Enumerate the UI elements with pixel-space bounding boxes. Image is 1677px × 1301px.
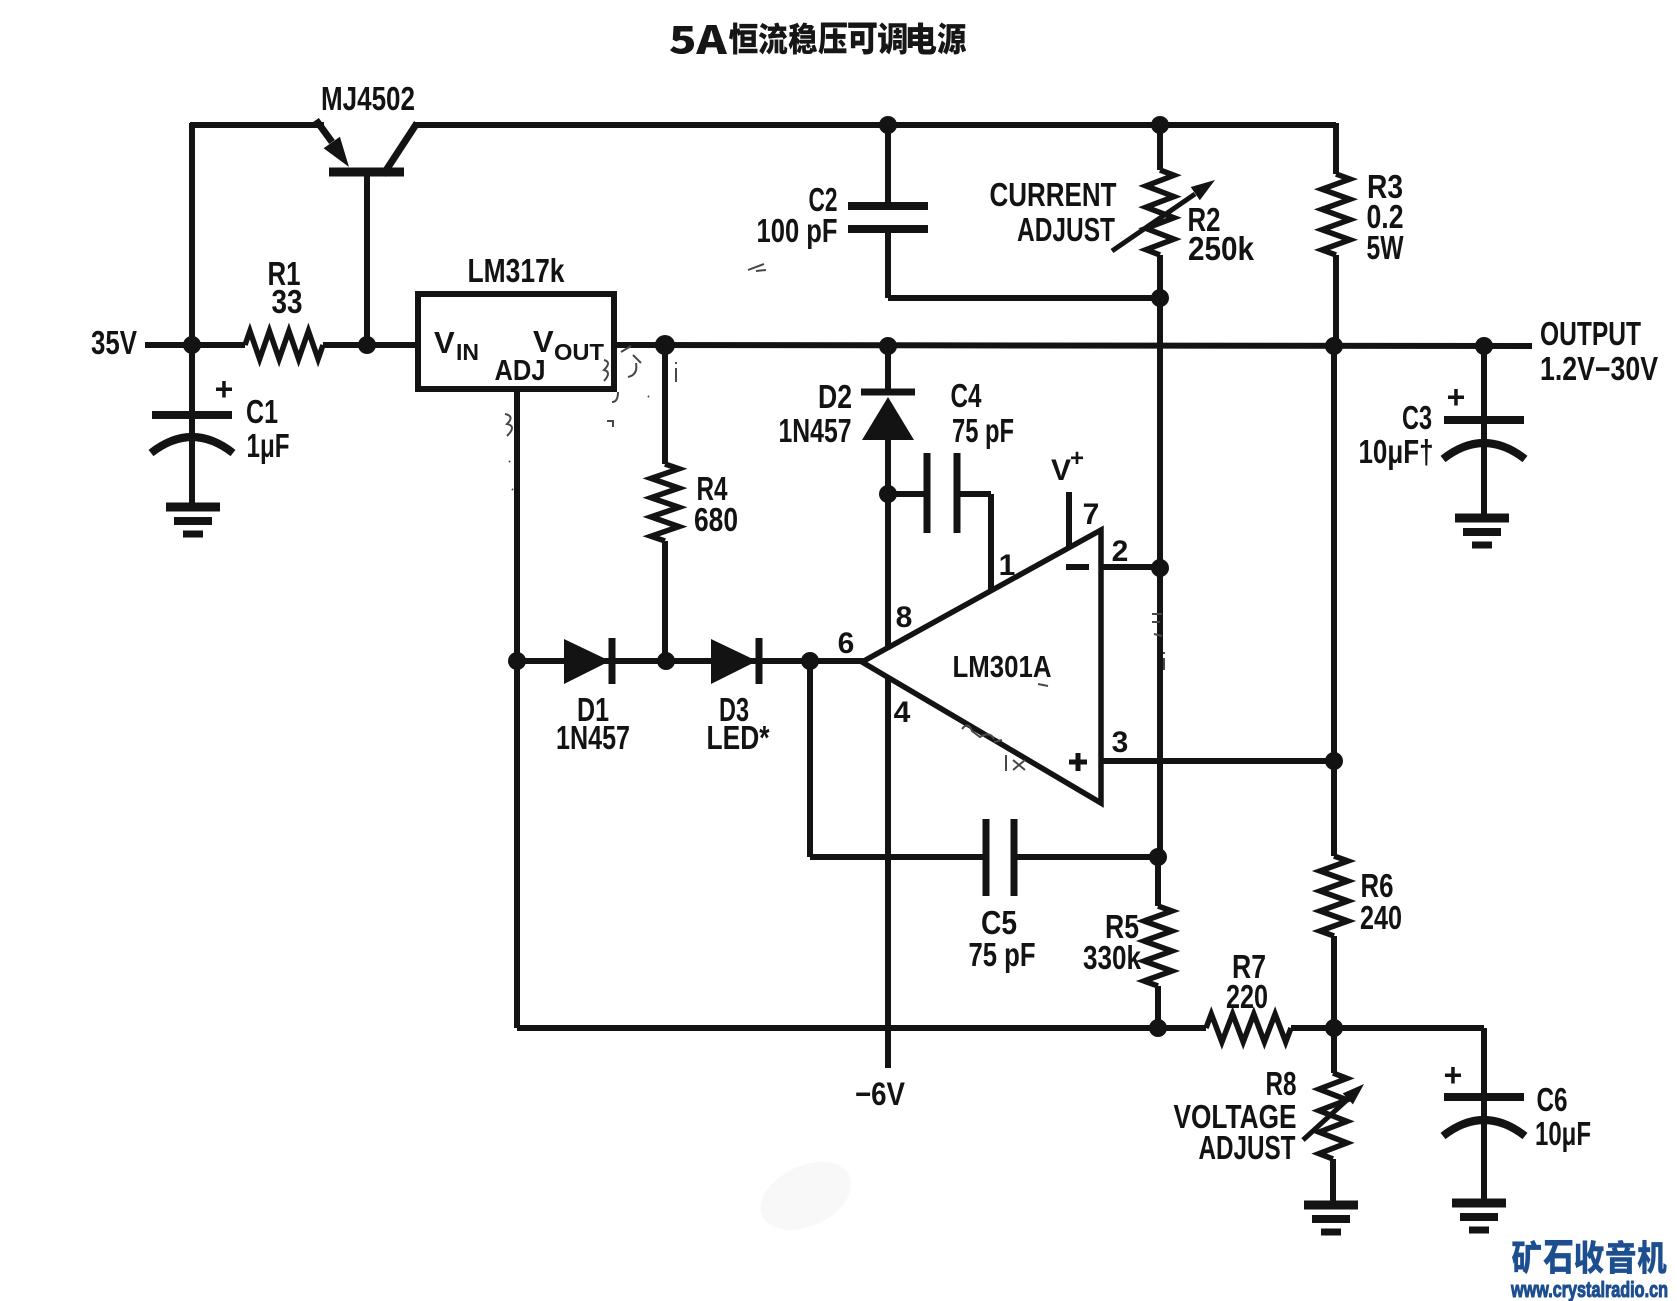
junction output-D2 [879, 337, 897, 355]
svg-text:1N457: 1N457 [556, 719, 630, 756]
capacitor C1 1uF [151, 345, 290, 507]
junction C2 top [879, 116, 897, 134]
potentiometer R8 VOLTAGE ADJUST [1174, 1028, 1365, 1201]
svg-text:C1: C1 [246, 393, 278, 430]
svg-text:75 pF: 75 pF [969, 936, 1036, 973]
svg-text:8: 8 [896, 601, 913, 634]
resistor R3 0.2 5W [1322, 123, 1404, 346]
junction R4-diode chain [657, 652, 675, 670]
capacitor C4 75pF [888, 377, 1014, 533]
svg-text:250k: 250k [1188, 230, 1255, 267]
svg-text:+: + [1070, 445, 1084, 472]
diode D2 1N457 [779, 346, 916, 495]
ground C1 [166, 503, 220, 512]
ground C6 [1452, 1199, 1506, 1208]
capacitor C5 75pF [969, 819, 1161, 973]
transistor Q1 MJ4502 [316, 120, 417, 345]
svg-text:1μF: 1μF [247, 427, 290, 464]
junction pin3-R6 line [1325, 752, 1343, 770]
resistor R1 33 [192, 255, 420, 359]
capacitor C2 100pF [757, 125, 929, 298]
capacitor C3 10uF [1359, 346, 1526, 518]
ground C3 [1455, 514, 1509, 523]
svg-text:LM317k: LM317k [468, 252, 566, 289]
svg-text:7: 7 [1083, 498, 1100, 531]
svg-text:R8: R8 [1266, 1065, 1297, 1102]
scan artifacts [505, 264, 1164, 771]
svg-text:LM301A: LM301A [953, 649, 1052, 684]
svg-text:OUTPUT: OUTPUT [1540, 315, 1641, 352]
svg-text:LED*: LED* [707, 719, 770, 756]
svg-text:OUT: OUT [554, 339, 604, 365]
pin 7 V+ [1066, 492, 1072, 549]
wire C2 to R2 wiper [888, 295, 1160, 301]
svg-text:MJ4502: MJ4502 [321, 80, 415, 117]
svg-text:+: + [215, 371, 234, 407]
pin 2 inverting input [1101, 564, 1160, 570]
svg-text:V: V [434, 325, 455, 360]
ground R8 [1304, 1201, 1358, 1210]
svg-text:240: 240 [1360, 899, 1402, 936]
diode D1 1N457 [556, 638, 630, 756]
junction R2 top [1151, 116, 1169, 134]
resistor R7 220 [1206, 948, 1484, 1042]
svg-text:www.crystalradio.cn: www.crystalradio.cn [1510, 1277, 1668, 1301]
svg-text:−6V: −6V [855, 1076, 906, 1112]
wire pin1 stub [988, 494, 994, 592]
svg-text:35V: 35V [91, 324, 137, 361]
potentiometer R2 250k CURRENT ADJUST [990, 125, 1255, 857]
svg-text:5W: 5W [1367, 229, 1405, 266]
svg-text:4: 4 [894, 696, 911, 729]
svg-text:ADJUST: ADJUST [1199, 1129, 1296, 1166]
svg-text:1: 1 [999, 549, 1016, 582]
pin 4 V- [885, 679, 891, 1068]
junction R6-R8-bottom rail [1325, 1019, 1343, 1037]
junction C5-R5-pin2 line [1149, 848, 1167, 866]
wire emitter feed vertical [189, 123, 195, 347]
junction R1-base-Vin [358, 336, 376, 354]
svg-text:10μF†: 10μF† [1359, 433, 1434, 470]
svg-text:6: 6 [838, 627, 855, 660]
faint smudge [750, 1149, 862, 1244]
svg-text:C3: C3 [1402, 399, 1432, 436]
svg-text:10μF: 10μF [1535, 1115, 1591, 1152]
svg-text:CURRENT: CURRENT [990, 176, 1117, 213]
junction R2 bottom [1151, 289, 1169, 307]
svg-text:+: + [1444, 1057, 1463, 1093]
wire feedback bottom rail [517, 1025, 1206, 1031]
junction pin6 node [801, 652, 819, 670]
svg-text:D2: D2 [818, 378, 852, 415]
wire pin8 stub [885, 494, 891, 646]
svg-text:100 pF: 100 pF [757, 212, 838, 249]
svg-text:2: 2 [1112, 535, 1129, 568]
wire 35V lead [145, 342, 192, 348]
resistor R4 680 [651, 345, 738, 661]
op-amp U1 LM301A [862, 530, 1101, 803]
svg-text:ADJUST: ADJUST [1017, 211, 1115, 248]
regulator U2 LM317k [418, 252, 614, 389]
svg-text:3: 3 [1112, 726, 1129, 759]
svg-text:V: V [533, 324, 554, 359]
svg-text:220: 220 [1226, 978, 1268, 1015]
resistor R5 330k [1083, 857, 1172, 1028]
junction output-C3 [1475, 337, 1493, 355]
svg-text:ADJ: ADJ [495, 355, 546, 387]
svg-text:680: 680 [694, 501, 738, 538]
wire top rail right segment [413, 122, 1336, 128]
junction R5-bottom rail [1149, 1019, 1167, 1037]
junction output-R3R6 [1325, 337, 1343, 355]
svg-text:33: 33 [272, 283, 303, 320]
junction D2-C4 [879, 485, 897, 503]
watermark 矿石收音机 crystalradio [1510, 1240, 1668, 1301]
wire diode chain [517, 658, 864, 664]
diode D3 LED* [707, 638, 770, 756]
svg-text:1.2V−30V: 1.2V−30V [1540, 350, 1658, 387]
wire top rail left segment [190, 122, 324, 128]
svg-text:IN: IN [456, 339, 479, 365]
svg-text:V: V [1051, 454, 1071, 487]
junction pin2-R2 line [1151, 559, 1169, 577]
junction ADJ-D1 [508, 652, 526, 670]
wire pin6 to C5 [807, 661, 813, 857]
junction 35V node [183, 336, 201, 354]
svg-text:C4: C4 [951, 377, 982, 414]
svg-text:75 pF: 75 pF [952, 412, 1014, 449]
junction VOUT-R4 [655, 335, 675, 355]
title 5A恒流稳压可调电源 [670, 22, 966, 54]
svg-text:+: + [1447, 379, 1466, 415]
resistor R6 240 [1320, 346, 1402, 1028]
capacitor C6 10uF [1443, 1028, 1591, 1200]
pin 3 non-inverting input [1101, 758, 1334, 764]
svg-text:330k: 330k [1083, 939, 1142, 976]
wire VOUT output rail [614, 345, 1532, 346]
svg-text:C6: C6 [1537, 1081, 1568, 1118]
svg-text:1N457: 1N457 [779, 412, 852, 449]
wire ADJ to feedback bottom [514, 389, 520, 1028]
